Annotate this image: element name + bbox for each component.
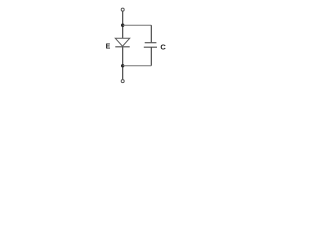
- node junction bottom: [121, 64, 124, 67]
- diode E triangle: [115, 38, 129, 46]
- wire bottom horizontal: [123, 65, 152, 67]
- wire top vertical: [122, 11, 124, 38]
- bottom terminal: [121, 80, 124, 83]
- capacitor C bottom plate: [144, 46, 157, 48]
- node junction top: [121, 24, 124, 27]
- wire top horizontal: [123, 24, 152, 26]
- top terminal: [121, 8, 124, 11]
- svg-text:C: C: [160, 43, 166, 52]
- svg-text:E: E: [106, 44, 111, 51]
- wire capacitor upper vertical: [150, 25, 152, 42]
- wire bottom vertical: [122, 67, 124, 79]
- capacitor C top plate: [145, 42, 157, 44]
- wire diode lower vertical: [122, 47, 124, 66]
- diode E cathode bar: [115, 46, 129, 48]
- wire capacitor lower vertical: [150, 47, 152, 65]
